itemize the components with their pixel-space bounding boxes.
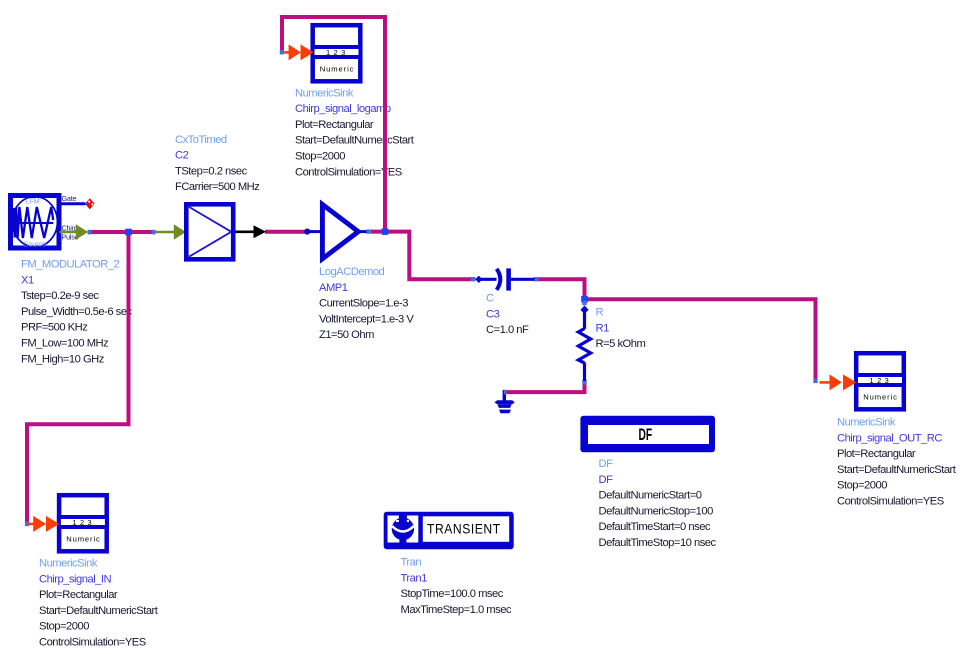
svg-text:FCarrier=500 MHz: FCarrier=500 MHz bbox=[175, 181, 260, 193]
svg-text:DefaultNumericStart=0: DefaultNumericStart=0 bbox=[599, 490, 702, 502]
wire end tick at bottom-left sink drop bbox=[25, 522, 29, 527]
svg-text:DefaultTimeStop=10 nsec: DefaultTimeStop=10 nsec bbox=[599, 537, 717, 549]
svg-text:Source: Source bbox=[24, 239, 46, 248]
label block LogACDemod bbox=[319, 266, 414, 341]
svg-text:DefaultNumericStop=100: DefaultNumericStop=100 bbox=[599, 505, 714, 517]
svg-text:1 2 3: 1 2 3 bbox=[870, 376, 890, 385]
capacitor C3 symbol bbox=[475, 268, 534, 290]
wire end tick at right sink drop bbox=[813, 379, 817, 384]
svg-text:Chirp_signal_logamp: Chirp_signal_logamp bbox=[295, 103, 391, 115]
svg-text:C2: C2 bbox=[175, 150, 189, 162]
wire: FM output to CxToTimed bbox=[91, 230, 152, 234]
FM_MODULATOR_2 X1 symbol bbox=[11, 196, 60, 249]
label block NumericSink OUT_RC bbox=[837, 417, 957, 508]
wire end tick at R1 top bbox=[582, 301, 586, 306]
svg-text:Numeric: Numeric bbox=[320, 65, 355, 74]
NumericSink Chirp_signal_OUT_RC symbol bbox=[856, 353, 904, 409]
wire end tick at top sink drop bbox=[280, 50, 284, 55]
label block NumericSink logamp bbox=[295, 87, 415, 178]
NumericSink Chirp_signal_IN symbol bbox=[59, 495, 107, 551]
svg-text:1 2 3: 1 2 3 bbox=[72, 518, 92, 527]
dataflow arrow at FM output bbox=[60, 224, 89, 240]
wire end tick at capacitor right bbox=[534, 277, 539, 281]
svg-text:R=5 kOhm: R=5 kOhm bbox=[596, 338, 646, 350]
svg-text:Start=DefaultNumericStart: Start=DefaultNumericStart bbox=[837, 464, 957, 476]
wire: NumericSink logamp feed (up-over-down from LogACDemod output node) bbox=[282, 17, 385, 232]
dataflow arrows into OUT_RC sink bbox=[820, 374, 857, 390]
label block C3 bbox=[486, 293, 529, 337]
svg-text:CxToTimed: CxToTimed bbox=[175, 134, 227, 146]
NumericSink Chirp_signal_logamp symbol bbox=[313, 25, 361, 81]
label block NumericSink IN bbox=[39, 558, 159, 649]
svg-text:TRANSIENT: TRANSIENT bbox=[427, 521, 501, 537]
CxToTimed C2 symbol bbox=[186, 204, 233, 259]
svg-text:Plot=Rectangular: Plot=Rectangular bbox=[39, 589, 118, 601]
svg-text:Gate: Gate bbox=[62, 194, 77, 203]
label block R1 bbox=[596, 307, 646, 351]
svg-text:C: C bbox=[486, 293, 494, 305]
svg-text:DF: DF bbox=[599, 474, 614, 486]
svg-text:ControlSimulation=YES: ControlSimulation=YES bbox=[837, 496, 944, 508]
svg-text:Tstep=0.2e-9 sec: Tstep=0.2e-9 sec bbox=[21, 290, 99, 302]
dataflow arrow before CxToTimed bbox=[156, 224, 186, 240]
wire end tick after FM output arrow bbox=[88, 230, 92, 235]
svg-text:C=1.0 nF: C=1.0 nF bbox=[486, 324, 529, 336]
svg-text:NumericSink: NumericSink bbox=[295, 87, 354, 99]
label block DF bbox=[599, 458, 717, 549]
svg-text:FM_High=10 GHz: FM_High=10 GHz bbox=[21, 353, 105, 365]
node junction at FM output tee bbox=[125, 229, 132, 236]
wire: gate stub bbox=[62, 202, 86, 205]
svg-text:Numeric: Numeric bbox=[863, 393, 898, 402]
svg-text:1 2 3: 1 2 3 bbox=[326, 48, 346, 57]
label block Tran bbox=[401, 557, 512, 616]
svg-text:Plot=Rectangular: Plot=Rectangular bbox=[837, 448, 916, 460]
node junction at LogACDemod output tee bbox=[382, 228, 389, 235]
svg-text:NumericSink: NumericSink bbox=[837, 417, 896, 429]
svg-text:Plot=Rectangular: Plot=Rectangular bbox=[295, 119, 374, 131]
DF controller block bbox=[580, 416, 715, 453]
dataflow arrows into IN sink bbox=[27, 516, 59, 532]
wire end tick at LogACDemod output bbox=[366, 229, 371, 233]
dataflow arrows into logamp sink bbox=[283, 44, 314, 60]
svg-text:VoltIntercept=1.e-3 V: VoltIntercept=1.e-3 V bbox=[319, 313, 414, 325]
svg-text:C3: C3 bbox=[486, 308, 500, 320]
svg-text:Chirp_signal_OUT_RC: Chirp_signal_OUT_RC bbox=[837, 432, 942, 444]
LogACDemod AMP1 symbol bbox=[304, 204, 366, 258]
wire: capacitor C3 to R node bbox=[538, 279, 585, 301]
svg-text:R1: R1 bbox=[596, 322, 610, 334]
svg-text:Numeric: Numeric bbox=[66, 535, 101, 544]
wire: CxToTimed output to LogACDemod input bbox=[265, 230, 305, 234]
ground bbox=[494, 390, 514, 413]
black output arrow of CxToTimed bbox=[254, 225, 267, 238]
svg-text:R: R bbox=[596, 307, 604, 319]
wire end tick before mid dataflow arrow bbox=[152, 230, 156, 235]
label block FM_MODULATOR_2 bbox=[21, 259, 132, 366]
svg-text:Pulse_Width=0.5e-6 sec: Pulse_Width=0.5e-6 sec bbox=[21, 306, 132, 318]
wire end tick at R1 bottom bbox=[582, 380, 586, 385]
svg-text:Tran1: Tran1 bbox=[401, 572, 428, 584]
svg-text:X1: X1 bbox=[21, 274, 34, 286]
svg-text:MaxTimeStep=1.0 msec: MaxTimeStep=1.0 msec bbox=[401, 604, 512, 616]
black output lead of CxToTimed bbox=[236, 231, 254, 234]
svg-text:CurrentSlope=1.e-3: CurrentSlope=1.e-3 bbox=[319, 298, 408, 310]
svg-text:FM_Low=100 MHz: FM_Low=100 MHz bbox=[21, 338, 109, 350]
wire end tick at ground lead bbox=[503, 390, 506, 395]
svg-text:FM_MODULATOR_2: FM_MODULATOR_2 bbox=[21, 259, 120, 271]
svg-text:Chirp_signal_IN: Chirp_signal_IN bbox=[39, 573, 112, 585]
svg-text:AMP1: AMP1 bbox=[319, 282, 348, 294]
svg-text:LFM: LFM bbox=[25, 197, 39, 206]
label block CxToTimed bbox=[175, 134, 260, 193]
svg-text:DF: DF bbox=[639, 426, 653, 444]
node junction at R branch tee bbox=[581, 296, 588, 303]
wire end tick at capacitor left bbox=[471, 277, 476, 281]
wire: LogACDemod output right, down, to capacitor C3 bbox=[371, 232, 471, 280]
svg-text:LogACDemod: LogACDemod bbox=[319, 266, 385, 278]
TRANSIENT controller block bbox=[384, 512, 514, 550]
wire: R node branch right and down to NumericSink OUT_RC bbox=[585, 299, 816, 380]
svg-text:Tran: Tran bbox=[401, 557, 422, 569]
svg-text:DefaultTimeStart=0 nsec: DefaultTimeStart=0 nsec bbox=[599, 521, 711, 533]
svg-text:Stop=2000: Stop=2000 bbox=[295, 151, 345, 163]
svg-text:DF: DF bbox=[599, 458, 614, 470]
svg-text:Z1=50 Ohm: Z1=50 Ohm bbox=[319, 329, 374, 341]
wire: R1 bottom to ground bbox=[505, 381, 585, 393]
svg-text:NumericSink: NumericSink bbox=[39, 558, 98, 570]
svg-text:PRF=500 KHz: PRF=500 KHz bbox=[21, 322, 88, 334]
svg-text:TStep=0.2 nsec: TStep=0.2 nsec bbox=[175, 165, 248, 177]
svg-text:Stop=2000: Stop=2000 bbox=[837, 480, 887, 492]
unconnected pin red diamond bbox=[85, 198, 94, 209]
svg-text:StopTime=100.0 msec: StopTime=100.0 msec bbox=[401, 588, 504, 600]
svg-text:Stop=2000: Stop=2000 bbox=[39, 621, 89, 633]
svg-text:ControlSimulation=YES: ControlSimulation=YES bbox=[39, 637, 146, 649]
svg-text:Start=DefaultNumericStart: Start=DefaultNumericStart bbox=[39, 605, 159, 617]
resistor R1 symbol bbox=[578, 306, 590, 381]
svg-text:Start=DefaultNumericStart: Start=DefaultNumericStart bbox=[295, 135, 415, 147]
wire: junction down, left, down to NumericSink Chirp_signal_IN bbox=[27, 232, 129, 522]
